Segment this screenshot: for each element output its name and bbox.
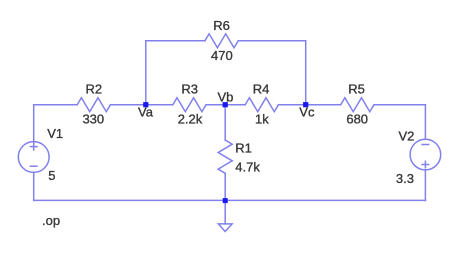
node Va junction (143, 102, 148, 107)
wire R5 to right corner (374, 104, 425, 106)
voltage source V1 circle (18, 142, 49, 173)
svg-text:R3: R3 (181, 82, 198, 97)
wire R1 to bottom rail (224, 173, 226, 200)
svg-text:R2: R2 (85, 82, 102, 97)
V1 minus sign (30, 165, 37, 167)
svg-text:4.7k: 4.7k (235, 160, 260, 175)
svg-text:V2: V2 (399, 128, 415, 143)
node Vc junction (303, 102, 308, 107)
svg-text:680: 680 (346, 112, 368, 127)
wire ground stem (224, 200, 226, 224)
ground (218, 224, 232, 232)
wire Vb to R1 (224, 105, 226, 140)
resistor R3 (173, 98, 206, 112)
ground node junction (223, 198, 228, 203)
svg-text:5: 5 (48, 168, 55, 183)
svg-text:470: 470 (211, 48, 233, 63)
V2 minus sign (422, 144, 429, 146)
svg-text:Va: Va (138, 104, 154, 119)
wire V2 to main rail (424, 105, 426, 140)
svg-text:1k: 1k (255, 112, 269, 127)
svg-text:R1: R1 (235, 141, 252, 156)
svg-text:3.3: 3.3 (396, 171, 414, 186)
resistor R4 (245, 98, 278, 112)
svg-text:Vc: Vc (299, 104, 315, 119)
wire R3 to R4 through node Vb (206, 104, 245, 106)
svg-text:2.2k: 2.2k (178, 112, 203, 127)
wire bottom rail (34, 199, 426, 201)
wire main rail left segment (34, 104, 77, 106)
wire V1 to bottom rail (33, 172, 35, 200)
wire Va riser (145, 41, 147, 105)
wire top rail right of R6 (238, 40, 306, 42)
svg-text:.op: .op (42, 213, 60, 228)
svg-text:R4: R4 (253, 82, 270, 97)
resistor R1 (218, 140, 232, 173)
svg-text:R5: R5 (348, 82, 365, 97)
svg-text:Vb: Vb (218, 89, 234, 104)
wire Vc dropper (305, 41, 307, 105)
node Vb junction (223, 102, 228, 107)
wire top rail left of R6 (146, 40, 205, 42)
svg-text:330: 330 (82, 112, 104, 127)
wire bottom rail to V2 (424, 170, 426, 201)
resistor R2 (77, 98, 110, 112)
wire R4 to R5 through node Vc (279, 104, 341, 106)
resistor R5 (341, 98, 374, 112)
wire R2 to R3 through node Va (111, 104, 173, 106)
V1 plus sign (30, 146, 37, 148)
wire left vertical top to V1 (33, 105, 35, 142)
V2 plus sign (422, 164, 429, 166)
resistor R6 (205, 34, 238, 48)
svg-text:R6: R6 (213, 18, 230, 33)
svg-text:V1: V1 (47, 126, 63, 141)
voltage source V2 circle (410, 139, 441, 170)
